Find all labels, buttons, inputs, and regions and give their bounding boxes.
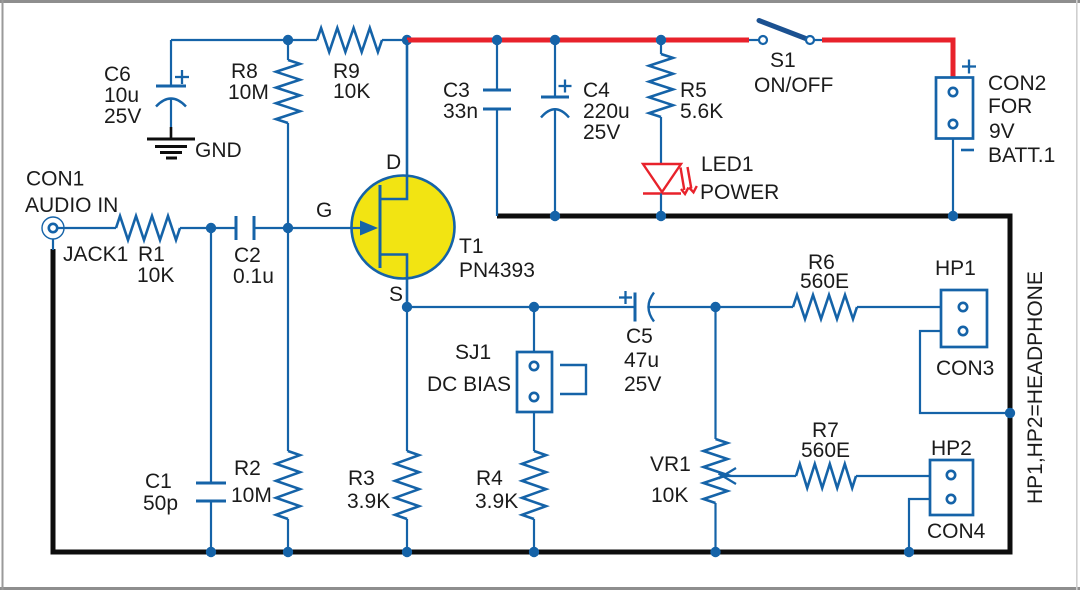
switch S1 right stub [814,39,823,41]
svg-text:GND: GND [195,139,242,162]
svg-text:LED1: LED1 [701,153,754,176]
svg-text:S1: S1 [770,49,796,72]
svg-text:CON2: CON2 [988,72,1046,95]
ground symbol GND [170,127,173,139]
junction bus/C4 [550,211,560,221]
svg-text:47u: 47u [624,349,659,372]
resistor R4 [533,412,535,451]
jumper SJ1 shunt bracket [560,365,586,394]
switch S1 blade [759,21,807,40]
minus sign (CON2) [961,149,974,152]
junction rail/C3 [492,35,502,45]
svg-text:25V: 25V [624,373,661,396]
wire T1 source lead [380,255,407,308]
wire switch to CON2 (red) [822,40,953,78]
svg-text:C2: C2 [234,244,261,267]
svg-text:10K: 10K [333,80,370,103]
wire source row (S to C5) [407,306,634,308]
pin 2 of CON4 [947,495,955,503]
resistor R1 [116,216,180,240]
pin 1 of CON3 [959,303,967,311]
resistor R5 [660,40,662,54]
svg-text:AUDIO IN: AUDIO IN [25,194,118,217]
transistor T1 gate bar [379,185,382,268]
wire R6 to HP1 [857,306,941,308]
junction bus/CON3 [1005,408,1015,418]
junction bus/C1 [206,547,216,557]
wire CON4 to ground bus [909,499,930,552]
svg-text:CON3: CON3 [936,357,994,380]
svg-text:25V: 25V [104,105,141,128]
svg-text:HP1: HP1 [935,257,976,280]
svg-text:C6: C6 [104,63,131,86]
resistor R2 [287,228,289,451]
svg-text:FOR: FOR [988,95,1032,118]
svg-text:560E: 560E [801,439,850,462]
junction source/SJ1 [529,302,539,312]
capacitor C5 [634,293,637,322]
svg-text:C5: C5 [626,325,653,348]
wire SJ1 top lead [533,307,535,352]
junction gate/R8 [283,223,293,233]
svg-text:9V: 9V [989,120,1015,143]
junction bus/LED1 [656,211,666,221]
svg-text:0.1u: 0.1u [233,265,274,288]
connector CON3 body [941,290,987,347]
svg-text:PN4393: PN4393 [459,259,535,282]
junction bus/R2 [283,547,293,557]
ground bus wire [53,216,1010,552]
svg-text:JACK1: JACK1 [63,243,128,266]
svg-text:POWER: POWER [700,181,779,204]
svg-text:25V: 25V [583,121,620,144]
svg-text:SJ1: SJ1 [455,341,491,364]
capacitor C3 [496,40,498,90]
svg-text:G: G [316,199,332,222]
wire T1 drain lead [380,40,407,199]
svg-text:3.9K: 3.9K [347,490,390,513]
LED1 symbol [643,164,681,192]
pin 2 of SJ1 [530,393,538,401]
capacitor C2 [235,216,238,240]
plus sign (C4) [559,85,572,87]
switch S1 left contact [759,36,767,44]
plus sign (C5) [619,296,632,298]
svg-text:C4: C4 [583,79,610,102]
wire R1 to C2 [180,227,236,229]
svg-text:R5: R5 [680,79,707,102]
svg-text:10u: 10u [104,84,139,107]
wire jack to R1 [58,227,116,229]
svg-text:5.6K: 5.6K [680,100,723,123]
wire CON3 to ground bus [920,331,1008,413]
transistor T1 body [352,176,455,279]
junction rail/R5 [656,35,666,45]
svg-text:ON/OFF: ON/OFF [754,74,833,97]
VR1 wiper arrow [725,475,796,477]
resistor R7 [796,464,856,488]
wire R7 to HP2 [856,475,930,477]
connector CON2 body [936,78,973,139]
svg-text:10K: 10K [651,484,688,507]
junction bus/R3 [402,547,412,557]
connector CON1 jack [42,217,64,239]
wire top rail (C6 to R9) [171,39,317,41]
svg-text:220u: 220u [583,100,630,123]
wire CON2 to ground bus [952,139,954,217]
svg-text:HP2: HP2 [931,437,972,460]
capacitor C4 [554,40,556,97]
svg-text:CON4: CON4 [927,520,986,543]
svg-text:R8: R8 [231,60,258,83]
wire C2 to gate [254,227,352,229]
potentiometer VR1 [714,307,716,439]
svg-text:HP1,HP2=HEADPHONE: HP1,HP2=HEADPHONE [1024,271,1047,504]
svg-text:S: S [389,283,403,306]
wire R9 to drain node [382,39,407,41]
svg-text:CON1: CON1 [26,168,84,191]
pin 1 of SJ1 [530,362,538,370]
junction input/C1 [206,223,216,233]
svg-text:R3: R3 [348,467,375,490]
jumper SJ1 body [517,352,552,412]
junction bus/R4 [529,547,539,557]
junction rail/C4 [550,35,560,45]
junction C5/VR1 [710,302,720,312]
pin 2 of CON2 [949,120,957,128]
pin 1 of CON2 [949,88,957,96]
connector CON4 body [930,460,973,515]
svg-text:C1: C1 [145,470,172,493]
resistor R8 [287,40,289,60]
switch S1 right contact [806,36,814,44]
capacitor C6 [170,40,172,86]
junction bus/VR1 [710,547,720,557]
svg-text:BATT.1: BATT.1 [988,144,1055,167]
svg-text:C3: C3 [443,79,470,102]
wire +9V rail (red) [407,38,749,43]
junction rail/R8 [283,35,293,45]
plus sign (CON2) [962,65,976,67]
switch S1 left stub [749,39,759,41]
svg-text:10M: 10M [231,484,272,507]
resistor R6 [793,295,857,319]
wire LED1 cathode [660,194,662,217]
capacitor C1 [210,228,212,483]
junction bus/CON2 [948,211,958,221]
svg-text:10M: 10M [228,81,269,104]
svg-text:D: D [386,151,401,174]
svg-text:50p: 50p [143,492,178,515]
svg-text:VR1: VR1 [650,453,691,476]
svg-text:R1: R1 [138,243,165,266]
svg-text:3.9K: 3.9K [475,490,518,513]
pin 1 of CON4 [947,471,955,479]
wire gate lead with arrowhead [352,227,362,229]
svg-text:R4: R4 [476,467,503,490]
junction source/S node [402,302,412,312]
junction bus/CON4 [904,547,914,557]
resistor R9 [317,28,382,52]
svg-text:DC BIAS: DC BIAS [427,373,511,396]
svg-text:10K: 10K [137,264,174,287]
svg-text:560E: 560E [800,270,849,293]
plus sign (C6) [175,76,189,78]
resistor R3 [406,307,408,451]
pin 2 of CON3 [959,327,967,335]
svg-text:R2: R2 [234,457,261,480]
svg-text:33n: 33n [443,100,478,123]
wire C5 to R6 [649,306,794,308]
svg-text:T1: T1 [459,235,484,258]
junction rail/T1-drain node [402,35,412,45]
